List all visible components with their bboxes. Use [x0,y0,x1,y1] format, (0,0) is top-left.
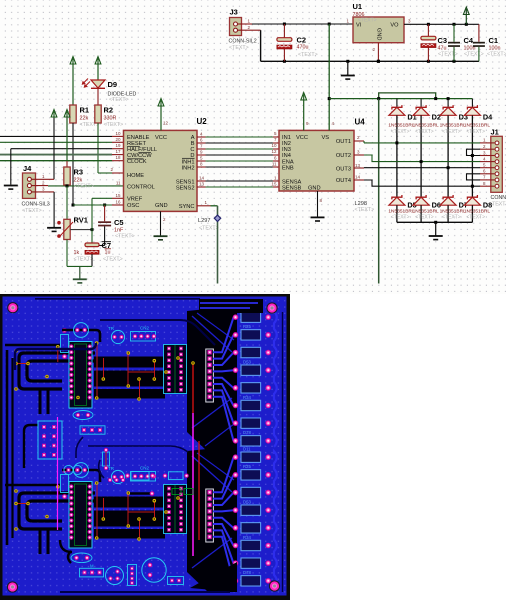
ground U4 [311,217,325,221]
svg-text:OSC: OSC [127,203,139,209]
svg-text:RV1: RV1 [74,216,88,225]
svg-text:<TEXT>: <TEXT> [442,214,461,220]
svg-text:<TEXT>: <TEXT> [466,214,485,220]
wire diode bottom rail [397,221,473,224]
svg-text:15: 15 [271,181,277,186]
svg-text:13: 13 [199,182,205,187]
power arrow to R3 [64,110,70,162]
svg-text:<TEXT>: <TEXT> [115,233,135,239]
svg-text:R1: R1 [80,106,90,115]
svg-text:VO: VO [390,23,399,29]
svg-text:OUT4: OUT4 [336,178,351,184]
svg-text:CONN-SIL2: CONN-SIL2 [229,39,257,45]
svg-text:10: 10 [115,131,121,136]
red traces bottom [16,485,155,539]
vias top [14,341,180,401]
svg-text:J3: J3 [230,8,238,17]
top band thin traces [15,320,215,478]
middle band small parts [64,411,193,495]
diode D1 1N5351BRL [388,99,416,198]
svg-text:D4: D4 [483,113,493,122]
svg-text:D78: D78 [243,570,251,575]
wire J4 pin3 to ground [31,192,54,227]
via pair below DIP [76,396,80,400]
svg-text:L297: L297 [198,218,210,224]
svg-text:D8: D8 [483,201,492,210]
wire U4 VS pin4 from +12V rail [328,23,331,131]
wire jumper J1 pins 6-7 [467,174,481,180]
bright magenta trace vertical [192,413,194,556]
wire J1 pin 4 stub [480,156,495,161]
svg-text:D11: D11 [243,447,251,452]
capacitor C4 100n [448,24,484,61]
svg-text:19: 19 [115,143,121,148]
wire OSC net (R1,C5) [72,204,124,207]
svg-text:<TEXT>: <TEXT> [109,97,129,103]
svg-text:12: 12 [271,149,277,154]
edge trace top [274,311,283,452]
svg-text:CONN-SIL3: CONN-SIL3 [22,202,50,208]
ground U2 [154,236,168,240]
svg-text:INH2: INH2 [182,165,195,171]
diode D5 1N5351BRL [388,195,416,222]
svg-text:GND: GND [155,203,168,209]
svg-text:R3: R3 [74,168,84,177]
svg-text:TR: TR [108,466,115,471]
svg-text:IN4: IN4 [282,153,291,159]
ground rail under power section [261,60,479,62]
vias bottom [14,481,180,541]
wire bus line 3 to U2 [11,148,124,150]
junction dots +6V rail [427,23,468,63]
svg-text:R34: R34 [243,395,251,400]
svg-text:VS: VS [322,135,330,141]
wire OUT4 to J1 pin8 [354,180,480,188]
svg-text:<TEXT>: <TEXT> [391,214,410,220]
wire J1 pin 6 stub [480,169,495,174]
svg-text:TEXT: TEXT [492,202,506,208]
svg-text:CN2: CN2 [140,466,149,471]
svg-text:1N5351BRL: 1N5351BRL [464,122,490,128]
connector J1 CONN-SIL8 [491,128,506,208]
svg-text:1u: 1u [105,249,111,255]
ground RV1/C7 [73,266,87,283]
power arrow to J4 pin1 [51,110,57,180]
svg-text:VCC: VCC [296,135,308,141]
svg-text:<TEXT>: <TEXT> [103,257,123,263]
svg-text:RESET: RESET [127,141,146,147]
wire J1 pin 7 stub [480,175,495,180]
svg-text:CW/CCW: CW/CCW [127,153,152,159]
svg-text:C4: C4 [464,36,474,45]
wire J1 pin 2 stub [480,144,495,149]
svg-text:C3: C3 [438,36,448,45]
svg-text:C2: C2 [297,36,307,45]
svg-text:U1: U1 [353,2,363,11]
wire J1 pin 5 stub [480,163,495,168]
svg-text:D53: D53 [243,499,251,504]
silk labels top [243,307,251,436]
wire bus line 4 to U2 [0,154,124,156]
svg-text:1N5351BRL: 1N5351BRL [388,122,414,128]
wire U2 GND pin2 to ground [160,211,162,235]
LED D9 DIODE-LED [82,79,137,104]
capacitor C1 100n [473,36,506,61]
black stub middle [130,491,154,496]
wire U2 VCC pin12 with power arrow [158,99,164,131]
resistor R3 22k [64,161,94,190]
wire VREF vertical [92,198,124,229]
svg-text:R2: R2 [104,106,114,115]
capacitor C3 47u [421,24,458,61]
svg-text:C5: C5 [114,218,124,227]
svg-text:D2: D2 [432,113,441,122]
DIP IC top [69,342,92,409]
svg-text:<TEXT>: <TEXT> [415,214,434,220]
svg-text:SENS2: SENS2 [176,185,195,191]
svg-text:<TEXT>: <TEXT> [199,226,219,232]
svg-text:SYNC: SYNC [179,204,195,210]
potentiometer RV1 1k [57,186,93,267]
wire U2 output 2 to U4 [197,142,279,144]
svg-text:ENB: ENB [282,165,294,171]
thick trace band bottom [94,485,193,539]
ground diode rail [429,222,443,239]
connector J4 [22,164,50,214]
svg-text:470u: 470u [297,45,309,51]
DIP IC bottom [69,482,92,549]
header hook trace [24,425,38,468]
wire U4 GND pin8 to ground [317,191,319,217]
power arrow to LED D9 [95,57,101,80]
bright magenta trace vertical 2 [57,417,59,530]
wire J4 pin2 / CONTROL net [31,185,123,187]
small components top [61,323,157,359]
small components bottom [61,463,157,499]
svg-text:12: 12 [163,121,169,126]
schematic background grid [0,0,506,294]
diode D8 1N5351BRL [464,195,492,222]
svg-text:<TEXT>: <TEXT> [466,129,485,135]
ground J4 pin3 [47,227,61,232]
wire U2 output 3 to U4 [197,148,279,150]
wire bus line 5 to U2 [0,160,124,162]
junction C2/rail [283,23,286,63]
svg-text:330R: 330R [104,116,117,122]
svg-text:<TEXT>: <TEXT> [358,18,377,24]
svg-text:CONN-: CONN- [491,195,506,201]
thick traces left top [5,345,95,414]
svg-text:<TEXT>: <TEXT> [391,129,410,135]
svg-text:R34: R34 [243,535,251,540]
wire RV1/C7 to ground [67,265,92,267]
label L297 [198,218,219,232]
svg-text:<TEXT>: <TEXT> [438,51,458,57]
svg-text:<TEXT>: <TEXT> [487,51,506,57]
svg-text:D78: D78 [243,430,251,435]
svg-text:D53: D53 [243,359,251,364]
svg-text:<TEXT>: <TEXT> [22,208,42,214]
svg-text:1k: 1k [74,250,80,256]
wire U1 VO +6V rail [404,24,479,42]
svg-text:HOME: HOME [127,173,144,179]
driver pads column top [164,345,187,394]
edge trace bottom [274,451,283,592]
node SYNC diamond [214,215,220,221]
driver pads column bottom [164,485,187,534]
svg-text:11: 11 [116,181,121,186]
wire J3 pin1 to U1 VI (+12V rail) [238,23,353,25]
wire SENS1/SENSA [197,180,279,182]
wire U4 VCC pin9 with power arrow [301,93,307,131]
svg-text:16: 16 [115,200,121,205]
svg-text:20: 20 [115,137,121,142]
svg-text:1N5351BRL: 1N5351BRL [440,122,466,128]
red trace vertical [191,361,195,413]
wire U2 output 5 to U4 [197,160,279,162]
thick traces left bottom [5,485,95,554]
wire jumper J1 pins 2-3 [467,149,481,157]
junction U1 gnd rail [377,60,380,63]
svg-text:OUT3: OUT3 [336,166,351,172]
capacitor C5 1nF [92,204,135,246]
fan traces top [213,317,234,441]
svg-text:VCC: VCC [155,135,167,141]
wire U2 output 1 to U4 [197,136,279,138]
svg-text:<TEXT>: <TEXT> [74,184,94,190]
label L298 [355,201,375,213]
voltage regulator U1 7806 [347,2,412,52]
board edge traces [7,299,263,592]
PCB board outline [0,294,290,600]
svg-text:<TEXT>: <TEXT> [415,129,434,135]
wire U2 output 6 to U4 [197,166,279,168]
svg-text:TR: TR [108,326,115,331]
svg-text:U4: U4 [355,118,366,127]
bottom extra parts [60,540,184,586]
power arrow +6V [463,7,469,24]
black fan top [187,306,237,452]
svg-text:10: 10 [271,143,277,148]
svg-text:D9: D9 [108,80,118,89]
svg-text:CONTROL: CONTROL [127,185,155,191]
svg-text:U2: U2 [197,117,208,126]
svg-text:<TEXT>: <TEXT> [229,45,249,51]
svg-text:<TEXT>: <TEXT> [104,122,124,128]
resistor column bottom [233,452,271,586]
svg-text:J4: J4 [23,164,32,173]
op-amp U2 L297 body [110,117,207,222]
thick trace band top [94,345,193,399]
svg-text:<TEXT>: <TEXT> [464,51,484,57]
transistor-driver U4 L298 body [271,118,365,204]
svg-text:17: 17 [115,149,121,154]
resistor R1 22k [70,105,99,205]
wire HOME from R2 [98,172,124,174]
red traces top [16,345,155,399]
resistor R2 330R [95,89,123,174]
power arrow to R1 [70,57,76,106]
svg-text:<TEXT>: <TEXT> [74,256,94,262]
red trace vertical bottom [198,441,200,540]
wire SENS2/SENSB [197,186,279,188]
svg-text:22k: 22k [74,178,83,184]
svg-text:J1: J1 [491,128,499,137]
svg-text:CLOCK: CLOCK [127,159,147,165]
svg-text:22k: 22k [80,116,89,122]
SIL pads column bottom [206,489,214,542]
wire diode clamp rail [328,93,473,100]
svg-text:18: 18 [115,155,121,160]
wire J1 pin 1 stub [480,138,495,143]
diode D7 1N5351BRL [440,195,468,222]
silk labels bottom [243,447,251,576]
wire U2 SYNC down [197,206,218,284]
wire J4 pin1 up to +V [31,178,54,180]
wire bus line 2 to U2 [0,141,124,143]
svg-text:C1: C1 [489,36,499,45]
wire J3 pin2 to ground rail [238,30,261,61]
svg-text:<TEXT>: <TEXT> [442,129,461,135]
svg-text:<TEXT>: <TEXT> [298,52,318,58]
wire OUT3 to J1 pin5 [354,166,480,169]
wire OUT2 to J1 pin4 [354,155,480,163]
wire J1 pin 8 stub [480,181,495,186]
header 2x4 middle left [38,421,62,459]
svg-text:CN2: CN2 [140,326,149,331]
svg-text:R25: R25 [243,324,251,329]
wire OUT1 to J1 pin1 [354,141,480,144]
wire U2 output 4 to U4 [197,154,279,156]
wire bus line 1 to U2 [0,135,124,137]
diode D2 1N5351BRL [413,99,441,198]
svg-text:13: 13 [355,163,361,168]
resistor column top [233,312,271,446]
svg-text:M: M [90,564,94,569]
svg-text:OUT1: OUT1 [336,139,351,145]
svg-text:GND: GND [308,185,321,191]
svg-text:GND: GND [376,28,382,40]
svg-text:14: 14 [355,175,361,180]
svg-text:11: 11 [272,161,277,166]
wire U1 GND pin2 [377,43,380,63]
connector J3 [229,8,257,51]
fan traces bottom [213,457,234,581]
svg-text:14: 14 [199,176,205,181]
svg-text:SENSB: SENSB [282,185,301,191]
ground far left on bus line 3 [4,149,18,189]
ground near U1 [341,60,355,79]
svg-text:15: 15 [115,193,121,198]
diode D6 1N5351BRL [413,195,441,222]
wire J1 pin 3 stub [480,150,495,155]
svg-text:OUT2: OUT2 [336,153,351,159]
svg-text:VREF: VREF [127,196,143,202]
SIL pads column top [206,349,214,402]
svg-text:<TEXT>: <TEXT> [355,207,375,213]
diode D3 1N5351BRL [440,99,468,198]
svg-text:R25: R25 [243,464,251,469]
capacitor C2 470u [277,24,318,61]
mounting holes [7,302,280,593]
diode D4 1N5351BRL [464,99,493,198]
svg-text:1N5351BRL: 1N5351BRL [413,122,439,128]
black fan bottom [187,446,237,592]
capacitor C7 1u [85,228,123,266]
wire sense vertical [378,99,380,284]
